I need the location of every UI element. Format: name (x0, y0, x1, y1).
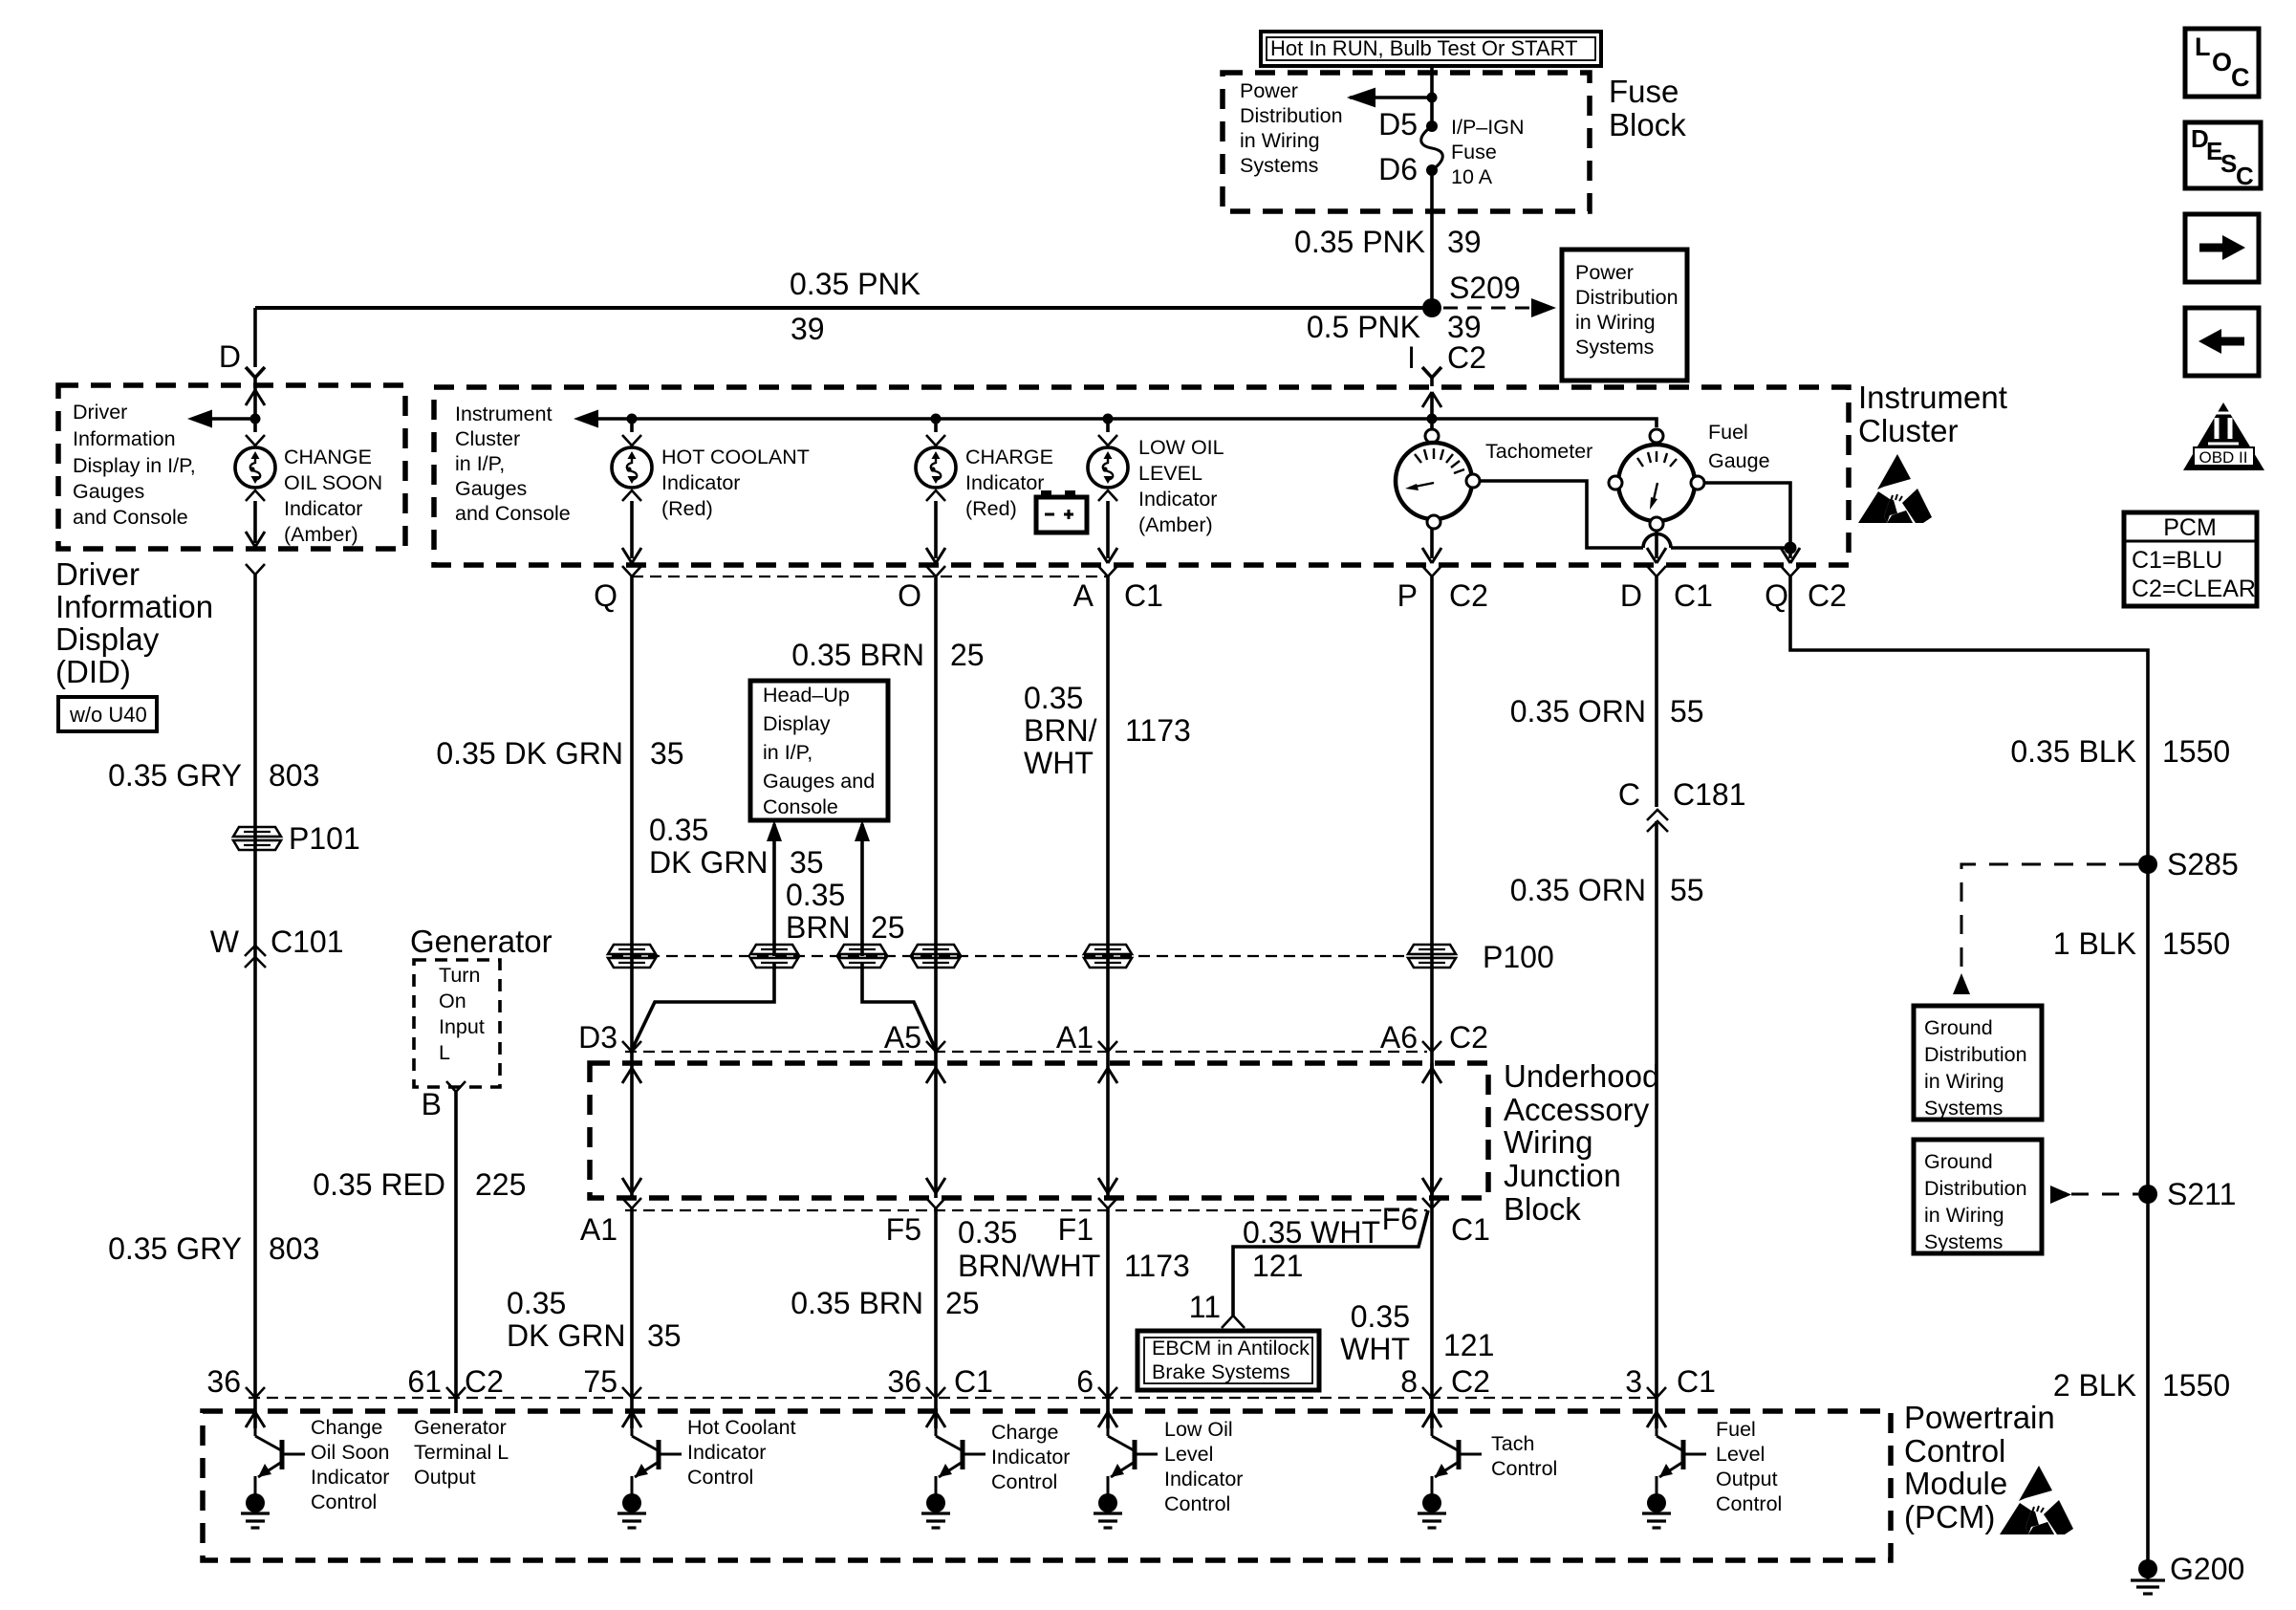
svg-text:3: 3 (1625, 1364, 1642, 1399)
svg-text:C1: C1 (1674, 578, 1713, 613)
connector Y: junction pin F1 (1058, 1198, 1117, 1413)
svg-text:1 BLK: 1 BLK (2053, 926, 2136, 961)
wire: feed to fuel gauge top (1432, 419, 1657, 427)
svg-text:Control: Control (311, 1490, 377, 1513)
wire: dashed reference from S209 to Power Distribution box (1443, 298, 1556, 317)
svg-text:in Wiring: in Wiring (1924, 1204, 2004, 1227)
svg-text:Charge: Charge (991, 1421, 1059, 1444)
label: 0.5 PNK circuit 39 below S209 (1307, 310, 1482, 344)
svg-text:D: D (219, 339, 241, 374)
svg-text:Oil Soon: Oil Soon (311, 1441, 389, 1464)
svg-text:G200: G200 (2170, 1552, 2244, 1586)
svg-text:F5: F5 (886, 1212, 921, 1247)
node: Driver Information Display dashed box (58, 385, 405, 549)
wire: junction block internal path O column (926, 1063, 945, 1198)
fuse block FB dashed box (1223, 73, 1590, 211)
svg-text:Gauges and: Gauges and (763, 770, 875, 793)
svg-text:L: L (439, 1041, 450, 1064)
svg-text:D6: D6 (1378, 152, 1418, 186)
label: 0.35 ORN 55 (lower D wire) (1510, 873, 1704, 907)
svg-text:Level: Level (1164, 1443, 1213, 1466)
svg-text:0.35 WHT: 0.35 WHT (1243, 1215, 1380, 1250)
svg-text:F6: F6 (1382, 1202, 1418, 1236)
connector Y: junction pin D3 (578, 1020, 641, 1055)
svg-text:75: 75 (583, 1364, 617, 1399)
svg-text:DK GRN: DK GRN (649, 845, 768, 880)
label: pin I / connector C2 at instrument cluster (1407, 340, 1486, 375)
label: 0.35 DK GRN 35 (upper Q wire) (436, 736, 683, 771)
transistor: Low Oil Level Indicator Control driver (1094, 1411, 1158, 1528)
node: Hot In RUN, Bulb Test Or START power feed label box (1261, 32, 1601, 66)
svg-text:Systems: Systems (1240, 154, 1318, 177)
svg-text:C1: C1 (1451, 1212, 1490, 1247)
node: Generator dashed box (Turn On Input L) (414, 960, 500, 1087)
svg-text:11: 11 (1189, 1290, 1221, 1324)
connector Y: junction pin A5 (884, 1020, 945, 1055)
svg-text:Q: Q (1765, 578, 1788, 613)
wire: junction block internal path Q column (622, 1063, 641, 1198)
svg-text:Cluster: Cluster (455, 427, 520, 450)
label: 0.35 GRY 803 (lower) (108, 1231, 319, 1266)
label: 0.35 DK GRN 35 (lower Q wire) (507, 1286, 682, 1353)
connector P101 inline (233, 821, 360, 856)
svg-text:Fuse: Fuse (1451, 141, 1497, 163)
connector lens P100 on tach wire (1408, 940, 1554, 974)
svg-text:39: 39 (1447, 225, 1482, 259)
label: 0.35 PNK circuit 39 (fuse output) (1294, 225, 1482, 259)
svg-text:C2: C2 (1451, 1364, 1490, 1399)
wire: fine dashed pass-through connector row P100 (612, 955, 1410, 957)
wire: cluster internal feed bus from C2 (574, 392, 1441, 428)
wire: arrow to Power Distribution (left) inside fuse block (1350, 89, 1438, 106)
connector Y: cluster pin Q C2 (fuel right) (1765, 566, 1847, 613)
wire: left vertical drop to DID (pin D) (253, 308, 257, 367)
lamp: CHANGE OIL SOON indicator bulb (235, 419, 275, 547)
label: Charge Indicator Control (991, 1421, 1070, 1493)
connector Y: PCM pin 75 (hot coolant) (583, 1364, 641, 1399)
wire: fine dashed connector row under cluster (632, 576, 1108, 577)
label: CHARGE Indicator (Red) (965, 446, 1053, 520)
connector Y: PCM pin 6 (low oil) (1076, 1364, 1117, 1399)
svg-text:Distribution: Distribution (1240, 104, 1343, 127)
splice S211 (2138, 1177, 2236, 1211)
svg-text:803: 803 (269, 1231, 319, 1266)
svg-text:55: 55 (1670, 694, 1704, 729)
svg-text:0.35 BLK: 0.35 BLK (2010, 734, 2136, 769)
connector Y: cluster pin O (898, 566, 945, 1063)
fuse F: I/P-IGN Fuse 10 A element (1421, 98, 1443, 302)
connector Y: cluster pin Q (594, 566, 641, 1063)
gauge: Tachometer (1396, 419, 1480, 529)
svg-text:OIL SOON: OIL SOON (284, 471, 382, 494)
svg-text:Distribution: Distribution (1575, 286, 1679, 309)
label: 0.35 PNK / 39 on horizontal feed (790, 267, 921, 346)
svg-text:S: S (2220, 149, 2237, 178)
svg-text:C: C (2236, 162, 2254, 190)
svg-text:Indicator: Indicator (311, 1466, 389, 1489)
icon: LOC reference box (2185, 29, 2259, 97)
wire: DK GRN branch joins D3 (633, 964, 774, 1048)
svg-text:Output: Output (1716, 1468, 1778, 1490)
svg-text:Fuse: Fuse (1609, 74, 1679, 109)
svg-text:C1=BLU: C1=BLU (2132, 547, 2222, 574)
svg-text:in Wiring: in Wiring (1924, 1070, 2004, 1093)
splice S285 (2138, 847, 2239, 881)
connector Y: junction pin A1 (1056, 1020, 1117, 1055)
svg-text:0.35: 0.35 (649, 813, 708, 847)
label: Tach Control (1491, 1432, 1557, 1480)
svg-text:O: O (2212, 48, 2232, 76)
connector C101 double chevron (245, 946, 266, 968)
svg-text:Driver: Driver (73, 401, 127, 424)
node: Power Distribution in Wiring Systems reference box (1562, 250, 1687, 381)
label: 1 BLK 1550 (2053, 926, 2230, 961)
svg-text:I/P–IGN: I/P–IGN (1451, 116, 1524, 139)
svg-text:0.35 DK GRN: 0.35 DK GRN (436, 736, 623, 771)
transistor: Tach Control driver (1418, 1411, 1482, 1528)
transistor: Charge Indicator Control driver (921, 1411, 986, 1528)
svg-text:25: 25 (945, 1286, 980, 1320)
svg-text:CHARGE: CHARGE (965, 446, 1053, 468)
table: PCM connector legend (C1=BLU, C2=CLEAR) (2124, 512, 2257, 606)
label: Driver Information Display in I/P, Gauges and Console (73, 401, 196, 529)
wire: tach bottom output (1422, 529, 1441, 563)
lamp: LOW OIL LEVEL indicator bulb (1088, 419, 1128, 563)
label: Underhood Accessory Wiring Junction Block (1504, 1058, 1659, 1227)
svg-text:w/o U40: w/o U40 (69, 703, 147, 727)
label: 0.35 GRY 803 (upper) (108, 758, 319, 793)
svg-text:Brake Systems: Brake Systems (1152, 1360, 1290, 1383)
svg-text:C: C (1618, 777, 1640, 812)
svg-text:C: C (2231, 63, 2250, 92)
splice S209 (1422, 271, 1521, 317)
svg-text:Indicator: Indicator (991, 1446, 1070, 1469)
svg-text:Cluster: Cluster (1858, 413, 1959, 448)
label: 0.35 ORN 55 (upper D wire) (1510, 694, 1704, 729)
svg-text:1173: 1173 (1124, 1249, 1190, 1283)
svg-text:WHT: WHT (1340, 1332, 1410, 1366)
svg-text:0.35: 0.35 (786, 878, 845, 912)
node: EBCM in Antilock Brake Systems box (1137, 1331, 1319, 1390)
svg-text:Control: Control (1716, 1492, 1782, 1515)
wire: fine dashed junction block top pin row (625, 1051, 1427, 1053)
svg-text:CHANGE: CHANGE (284, 446, 372, 468)
svg-text:35: 35 (790, 845, 824, 880)
svg-text:Ground: Ground (1924, 1016, 1993, 1039)
connector lens on O wire (912, 945, 960, 968)
label: Powertrain Control Module (PCM) (1904, 1400, 2055, 1534)
svg-text:Underhood: Underhood (1504, 1058, 1659, 1094)
svg-text:Distribution: Distribution (1924, 1043, 2027, 1066)
svg-text:in I/P,: in I/P, (455, 452, 505, 475)
svg-text:35: 35 (650, 736, 684, 771)
svg-text:PCM: PCM (2163, 514, 2217, 541)
node: Head-Up Display box (750, 681, 888, 820)
svg-text:0.35: 0.35 (507, 1286, 566, 1320)
label: Fuel Level Output Control (1716, 1418, 1782, 1515)
label: Change Oil Soon Indicator Control (311, 1416, 389, 1513)
node: Instrument Cluster dashed box (434, 387, 1849, 565)
svg-text:0.35 RED: 0.35 RED (313, 1167, 445, 1202)
connector lens on Q wire (608, 945, 656, 968)
transistor: Hot Coolant Indicator Control driver (617, 1411, 682, 1528)
svg-text:(Red): (Red) (965, 497, 1017, 520)
svg-text:0.35: 0.35 (958, 1215, 1017, 1250)
wire: fuel gauge right terminal to Q C2 drop (1704, 483, 1800, 563)
svg-text:Generator: Generator (410, 924, 552, 959)
svg-text:0.5 PNK: 0.5 PNK (1307, 310, 1420, 344)
wire: long 0.35 PNK horizontal feed (255, 306, 1432, 310)
label: 0.35 BRN 25 (upper O wire) (791, 638, 984, 672)
svg-text:1550: 1550 (2162, 734, 2230, 769)
connector Y: cluster pin A C1 (1073, 566, 1163, 1063)
svg-text:B: B (422, 1087, 442, 1121)
label: 2 BLK 1550 (2053, 1368, 2230, 1403)
icon: forward arrow box (2185, 214, 2259, 282)
icon: back arrow box (2185, 308, 2259, 376)
svg-text:DK GRN: DK GRN (507, 1318, 625, 1353)
label: I/P-IGN Fuse 10 A (1451, 116, 1524, 188)
svg-text:0.35: 0.35 (1024, 681, 1083, 715)
svg-text:HOT COOLANT: HOT COOLANT (661, 446, 810, 468)
wire: branch arrow into Head-Up Display (BRN) (855, 820, 870, 956)
svg-text:0.35 PNK: 0.35 PNK (1294, 225, 1425, 259)
svg-text:0.35 GRY: 0.35 GRY (108, 758, 242, 793)
svg-text:S209: S209 (1449, 271, 1521, 305)
svg-text:Change: Change (311, 1416, 382, 1439)
svg-text:Output: Output (414, 1466, 476, 1489)
svg-text:Powertrain: Powertrain (1904, 1400, 2055, 1435)
svg-text:25: 25 (950, 638, 985, 672)
svg-text:Indicator: Indicator (1164, 1468, 1243, 1490)
svg-text:P101: P101 (289, 821, 360, 856)
label: Low Oil Level Indicator Control (1164, 1418, 1243, 1515)
svg-text:D5: D5 (1378, 107, 1418, 141)
svg-text:Turn: Turn (439, 964, 480, 987)
svg-text:Information: Information (73, 427, 176, 450)
connector Y: junction pin A6 C2 (1380, 1020, 1488, 1055)
svg-text:I: I (1407, 340, 1416, 375)
svg-text:S211: S211 (2167, 1177, 2236, 1211)
label: 0.35 BLK 1550 (2010, 734, 2230, 769)
svg-text:(PCM): (PCM) (1904, 1499, 1995, 1534)
svg-text:D3: D3 (578, 1020, 617, 1055)
svg-text:Indicator: Indicator (284, 497, 362, 520)
svg-text:C2: C2 (1808, 578, 1847, 613)
svg-text:Gauges: Gauges (455, 477, 527, 500)
svg-text:Instrument: Instrument (1858, 380, 2007, 415)
svg-text:(Amber): (Amber) (1138, 513, 1213, 536)
svg-text:Head–Up: Head–Up (763, 684, 850, 707)
wire: branch from F6 C1 to EBCM (1233, 1210, 1428, 1316)
svg-text:Accessory: Accessory (1504, 1092, 1650, 1127)
svg-text:Console: Console (763, 795, 838, 818)
svg-text:803: 803 (269, 758, 319, 793)
svg-text:Systems: Systems (1924, 1230, 2003, 1253)
svg-text:55: 55 (1670, 873, 1704, 907)
gauge: Fuel Gauge (1609, 429, 1704, 531)
svg-text:36: 36 (887, 1364, 921, 1399)
icon: ESD sensitivity symbol (instrument cluster) (1858, 454, 1932, 523)
svg-text:Control: Control (687, 1466, 753, 1489)
svg-text:Systems: Systems (1575, 336, 1654, 359)
svg-text:Ground: Ground (1924, 1150, 1993, 1173)
wire: BRN branch joins A5 (862, 964, 935, 1048)
svg-text:C101: C101 (271, 925, 344, 959)
wire: branch arrow into Head-Up Display (DK GRN) (767, 820, 782, 956)
connector Y: PCM pin 36 (change oil) (206, 1364, 265, 1399)
wire: from Hot In RUN box down into fuse block (1430, 66, 1434, 98)
svg-text:Indicator: Indicator (661, 471, 740, 494)
label: Generator Terminal L Output (414, 1416, 509, 1489)
icon: OBD II triangle (2183, 402, 2264, 470)
svg-text:F1: F1 (1058, 1212, 1094, 1247)
svg-text:in I/P,: in I/P, (763, 741, 812, 764)
svg-text:WHT: WHT (1024, 746, 1094, 780)
svg-text:121: 121 (1443, 1328, 1494, 1362)
ground G200 (2131, 1552, 2244, 1594)
svg-text:LOW OIL: LOW OIL (1138, 436, 1224, 459)
connector Y: junction pin F6 C1 (1382, 1198, 1490, 1247)
svg-text:O: O (898, 578, 921, 613)
svg-text:Driver: Driver (55, 556, 140, 592)
icon: DESC reference box (2185, 122, 2261, 190)
label: Instrument Cluster (right side) (1858, 380, 2007, 448)
svg-text:225: 225 (475, 1167, 526, 1202)
svg-text:C181: C181 (1673, 777, 1746, 812)
node: Underhood Accessory Wiring Junction Block dashed box (590, 1063, 1488, 1198)
svg-text:0.35 ORN: 0.35 ORN (1510, 873, 1646, 907)
svg-text:OBD II: OBD II (2199, 448, 2247, 467)
svg-text:1550: 1550 (2162, 926, 2230, 961)
svg-text:C1: C1 (954, 1364, 993, 1399)
svg-text:Junction: Junction (1504, 1158, 1621, 1193)
svg-text:in Wiring: in Wiring (1575, 311, 1656, 334)
svg-text:Input: Input (439, 1015, 485, 1038)
svg-text:C1: C1 (1124, 578, 1163, 613)
connector Y: junction pin F5 (886, 1198, 945, 1413)
label: Power Distribution in Wiring Systems (fuse block) (1240, 79, 1343, 177)
connector Y: cluster pin P C2 (1397, 566, 1488, 1413)
svg-text:Gauges: Gauges (73, 480, 144, 503)
svg-text:1550: 1550 (2162, 1368, 2230, 1403)
svg-text:Power: Power (1240, 79, 1298, 102)
svg-text:C2: C2 (1449, 1020, 1488, 1055)
connector Y: PCM pin 61 C2 (generator) (407, 1364, 504, 1399)
icon: ESD sensitivity symbol (PCM) (2000, 1466, 2073, 1534)
svg-text:Systems: Systems (1924, 1097, 2003, 1120)
svg-text:S285: S285 (2167, 847, 2239, 881)
svg-text:0.35 BRN: 0.35 BRN (791, 638, 924, 672)
svg-text:L: L (2195, 33, 2211, 61)
label: 0.35 WHT 121 (EBCM branch) (1243, 1215, 1380, 1283)
svg-text:Terminal L: Terminal L (414, 1441, 509, 1464)
svg-text:Information: Information (55, 589, 213, 624)
svg-text:Indicator: Indicator (965, 471, 1044, 494)
svg-text:C2: C2 (465, 1364, 504, 1399)
label: Turn On Input L (439, 964, 485, 1064)
wire: hop of tach wire over fuel output (1643, 534, 1671, 549)
svg-text:P100: P100 (1483, 940, 1554, 974)
label: 0.35 RED 225 (313, 1167, 526, 1202)
label: Driver Information Display (DID) (55, 556, 213, 689)
connector lens on A wire (1084, 945, 1132, 968)
connector lens on DK GRN branch (750, 945, 798, 968)
svg-text:Fuel: Fuel (1716, 1418, 1756, 1441)
svg-text:Instrument: Instrument (455, 402, 552, 425)
connector Y: PCM pin 8 C2 (tach) (1400, 1364, 1490, 1399)
svg-text:Level: Level (1716, 1443, 1765, 1466)
svg-text:36: 36 (206, 1364, 241, 1399)
wire: junction block internal path P column (1422, 1063, 1441, 1198)
svg-text:Low Oil: Low Oil (1164, 1418, 1233, 1441)
label: HOT COOLANT Indicator (Red) (661, 446, 810, 520)
svg-text:Generator: Generator (414, 1416, 507, 1439)
svg-text:A6: A6 (1380, 1020, 1418, 1055)
label: Instrument Cluster in I/P, Gauges and Console (455, 402, 571, 525)
svg-text:C2: C2 (1449, 578, 1488, 613)
label: 0.35 BRN 25 (lower O wire) (791, 1286, 979, 1320)
svg-text:0.35: 0.35 (1351, 1299, 1410, 1334)
label: 0.35 BRN/WHT 1173 (lower A wire) (958, 1215, 1190, 1283)
connector lens on BRN branch (838, 945, 886, 968)
wire: fuel gauge output down through hop (1647, 531, 1666, 563)
wire: junction block internal path A column (1098, 1063, 1117, 1198)
svg-text:0.35 ORN: 0.35 ORN (1510, 694, 1646, 729)
svg-text:C2=CLEAR: C2=CLEAR (2132, 576, 2256, 602)
svg-text:Display: Display (55, 621, 160, 657)
node: Ground Distribution in Wiring Systems box (S211) (1914, 1140, 2042, 1253)
connector Y below DID box (246, 564, 265, 1413)
svg-text:Fuel: Fuel (1708, 421, 1748, 444)
node: Ground Distribution in Wiring Systems box (S285) (1914, 1006, 2042, 1120)
svg-text:Hot In RUN, Bulb Test Or START: Hot In RUN, Bulb Test Or START (1270, 36, 1578, 60)
svg-text:Display: Display (763, 712, 831, 735)
svg-text:6: 6 (1076, 1364, 1094, 1399)
label: 0.35 BRN / 25 (head-up branch) (786, 878, 905, 945)
svg-text:Control: Control (991, 1470, 1057, 1493)
svg-text:Block: Block (1609, 107, 1686, 142)
wire: dashed branch from S211 to Ground Distribution (2050, 1186, 2138, 1204)
svg-text:A: A (1073, 578, 1094, 613)
label: pin C / connector C181 (1618, 777, 1746, 812)
svg-text:Display in I/P,: Display in I/P, (73, 454, 196, 477)
svg-text:Gauge: Gauge (1708, 449, 1770, 472)
svg-text:Control: Control (1904, 1433, 2005, 1469)
label: Hot Coolant Indicator Control (687, 1416, 796, 1489)
connector Y: PCM pin 36 C1 (charge) (887, 1364, 993, 1399)
wire: tach output to junction at right (1480, 481, 1790, 548)
node: Powertrain Control Module dashed box (203, 1411, 1891, 1560)
label: CHANGE OIL SOON Indicator (Amber) (284, 446, 382, 546)
svg-text:0.35 PNK: 0.35 PNK (790, 267, 921, 301)
svg-text:10 A: 10 A (1451, 165, 1493, 188)
svg-text:A5: A5 (884, 1020, 921, 1055)
svg-text:8: 8 (1400, 1364, 1418, 1399)
svg-text:(Amber): (Amber) (284, 523, 358, 546)
svg-text:(DID): (DID) (55, 654, 131, 689)
svg-text:Q: Q (594, 578, 617, 613)
svg-text:39: 39 (791, 312, 825, 346)
label: LOW OIL LEVEL Indicator (Amber) (1138, 436, 1224, 536)
connector Y: D entry to DID box (246, 367, 265, 378)
svg-text:A1: A1 (1056, 1020, 1094, 1055)
label: w/o U40 option box (58, 697, 157, 731)
svg-text:A1: A1 (580, 1212, 617, 1247)
svg-text:LEVEL: LEVEL (1138, 462, 1202, 485)
label: 0.35 WHT 121 (lower P wire) (1340, 1299, 1494, 1366)
svg-text:2 BLK: 2 BLK (2053, 1368, 2136, 1403)
